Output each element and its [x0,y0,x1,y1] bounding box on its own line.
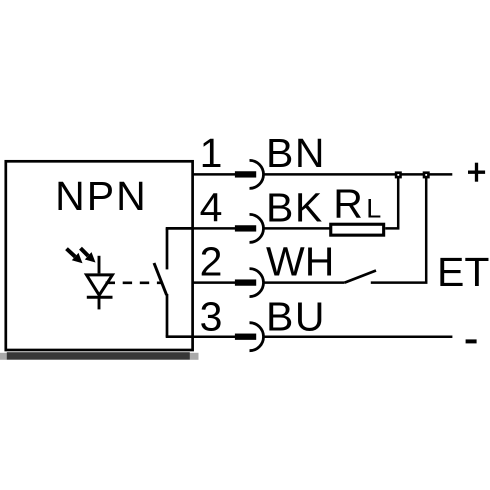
internal wire to pin 4 [166,227,194,230]
pin 4 socket arc [250,214,264,242]
wire BU to minus [264,335,453,338]
wire WH to teach switch [264,281,345,284]
junction B [423,171,430,178]
mounting surface bar (light gray full) [0,353,199,360]
light arrow 1 [67,249,83,264]
wire BN to plus [264,173,453,176]
sensor body box [6,161,193,350]
pin 1 socket arc [250,160,264,188]
minus terminal [466,339,477,343]
svg-text:BN: BN [266,130,326,176]
svg-text:4: 4 [200,185,223,231]
resistor RL body [331,224,384,235]
svg-text:L: L [366,193,381,223]
svg-text:NPN: NPN [55,173,148,219]
teach switch ET blade [345,271,376,283]
pin 1 plug pin [235,171,256,177]
svg-text:1: 1 [200,130,223,176]
photodiode D1 cathode bar [87,296,113,299]
output switch blade [154,263,167,295]
pin 3 socket arc [250,323,264,351]
output switch upper contact [166,228,169,269]
pull-up wire from resistor to junction A [385,174,398,228]
junction A [395,171,402,178]
svg-text:2: 2 [200,239,223,285]
light arrow 2 [81,248,96,262]
pin 2 socket arc [250,269,264,297]
pin 4 plug pin [235,225,256,231]
pin 1 stub wire [192,173,236,176]
pin 4 stub wire [192,227,236,230]
photodiode D1 cathode lead [98,297,101,309]
svg-text:BK: BK [266,185,324,231]
photodiode D1 anode lead [98,256,101,274]
output switch lower lead [166,294,169,337]
svg-text:R: R [333,180,363,226]
pin 2 stub wire [192,281,236,284]
plus terminal [468,163,485,182]
svg-text:WH: WH [266,239,334,285]
actuation dashed link [106,281,162,284]
svg-text:ET: ET [437,249,489,295]
mounting surface bar (dark gray) [7,352,190,359]
wire BK to resistor [264,227,331,230]
svg-text:BU: BU [266,293,326,339]
pin 3 plug pin [235,334,256,340]
photodiode D1 triangle [87,275,113,295]
wire from teach switch up to junction B [371,174,426,282]
pin 2 plug pin [235,279,256,285]
pin 3 stub wire [192,335,236,338]
internal wire to pin 3 [166,335,194,338]
svg-text:3: 3 [200,293,223,339]
